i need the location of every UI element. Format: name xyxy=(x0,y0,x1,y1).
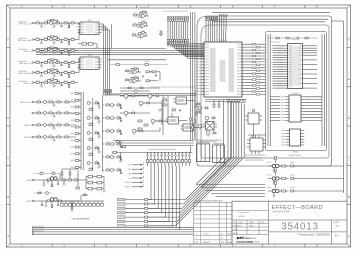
svg-text:C: C xyxy=(7,155,9,159)
svg-text:B: B xyxy=(7,195,9,199)
svg-text:DYNACORD: DYNACORD xyxy=(237,240,254,244)
svg-text:EFF2 aux: EFF2 aux xyxy=(24,83,31,85)
svg-text:354013: 354013 xyxy=(281,221,319,232)
svg-text:* not assembled: * not assembled xyxy=(71,217,90,221)
svg-text:SM5840: SM5840 xyxy=(292,152,298,154)
svg-text:E: E xyxy=(7,77,9,81)
svg-text:MIC2: MIC2 xyxy=(26,180,31,182)
svg-text:D: D xyxy=(7,116,9,120)
svg-text:EFF2 mon–Right: EFF2 mon–Right xyxy=(18,72,31,75)
svg-text:1/2: 1/2 xyxy=(335,224,339,228)
svg-text:2: 2 xyxy=(196,238,197,240)
svg-text:4580: 4580 xyxy=(88,55,92,57)
svg-text:Ch2: Ch2 xyxy=(128,169,131,171)
svg-text:EFF2 mon–L: EFF2 mon–L xyxy=(20,102,31,104)
svg-text:PU.1 GND PU: PU.1 GND PU xyxy=(35,226,46,228)
svg-text:AD–DA & DSP: AD–DA & DSP xyxy=(273,210,290,214)
svg-text:EFF1 aux: EFF1 aux xyxy=(24,51,31,53)
svg-text:EFF1 mon–Left: EFF1 mon–Left xyxy=(19,23,31,26)
svg-text:23.4: 23.4 xyxy=(220,234,224,236)
svg-text:TN.161: TN.161 xyxy=(203,234,209,236)
svg-text:DSP56002: DSP56002 xyxy=(218,40,227,42)
svg-text:3—: 3— xyxy=(335,234,341,238)
svg-text:MON–L: MON–L xyxy=(24,125,31,127)
svg-text:D: D xyxy=(348,116,350,120)
svg-text:A: A xyxy=(348,234,350,238)
svg-text:A: A xyxy=(7,234,9,238)
svg-text:GND OF DG: GND OF DG xyxy=(35,231,45,233)
svg-text:GmbH: GmbH xyxy=(254,242,260,244)
svg-text:HM62256: HM62256 xyxy=(291,39,298,41)
svg-text:24.6.: 24.6. xyxy=(239,225,243,227)
svg-text:Ch3: Ch3 xyxy=(128,173,131,175)
svg-text:E: E xyxy=(348,77,350,81)
svg-text:ALTERATIONS RESERVED: ALTERATIONS RESERVED xyxy=(196,199,223,202)
svg-text:PCM69: PCM69 xyxy=(292,93,298,95)
svg-text:Powermate 1000/1600: Powermate 1000/1600 xyxy=(299,232,330,236)
svg-text:EFF2 mon–Left: EFF2 mon–Left xyxy=(19,62,31,65)
svg-text:0: 0 xyxy=(196,234,197,236)
svg-text:C: C xyxy=(348,155,350,159)
svg-text:Project name: Project name xyxy=(239,211,250,214)
svg-text:4580: 4580 xyxy=(88,20,92,22)
svg-text:MIC1: MIC1 xyxy=(26,201,31,203)
svg-text:BOMNr.: BOMNr. xyxy=(239,216,246,218)
svg-text:Ch4: Ch4 xyxy=(128,178,131,180)
svg-text:EFF1 mon–Right: EFF1 mon–Right xyxy=(18,39,31,42)
svg-text:Ch1: Ch1 xyxy=(128,165,131,167)
svg-text:PU.2 GND PU: PU.2 GND PU xyxy=(35,228,46,230)
svg-text:B: B xyxy=(348,195,350,199)
svg-text:20.7: 20.7 xyxy=(220,238,224,240)
svg-text:MON–R: MON–R xyxy=(24,137,31,139)
